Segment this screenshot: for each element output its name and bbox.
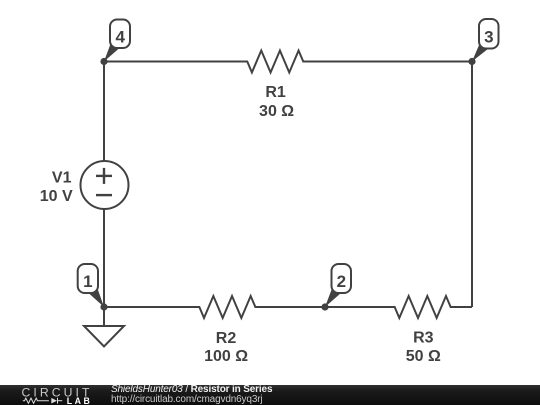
svg-text:50 Ω: 50 Ω bbox=[406, 348, 441, 365]
svg-text:R2: R2 bbox=[216, 330, 237, 347]
svg-text:4: 4 bbox=[115, 28, 125, 47]
svg-text:30 Ω: 30 Ω bbox=[259, 103, 294, 120]
svg-text:10 V: 10 V bbox=[40, 188, 73, 205]
svg-text:3: 3 bbox=[484, 28, 493, 47]
svg-text:2: 2 bbox=[337, 272, 346, 291]
svg-text:V1: V1 bbox=[52, 169, 72, 186]
svg-text:100 Ω: 100 Ω bbox=[204, 348, 248, 365]
svg-text:R3: R3 bbox=[413, 330, 434, 347]
svg-text:R1: R1 bbox=[265, 84, 286, 101]
svg-text:LAB: LAB bbox=[67, 396, 93, 405]
svg-text:1: 1 bbox=[83, 272, 92, 291]
